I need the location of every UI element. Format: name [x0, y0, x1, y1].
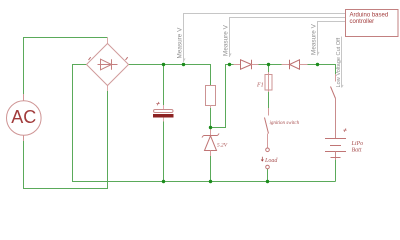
svg-text:Measure V: Measure V — [223, 24, 230, 56]
measure leader 3 — [318, 22, 346, 56]
node dot B (measure probe 1) — [182, 63, 185, 66]
svg-text:F1: F1 — [256, 83, 264, 89]
node dot E (battery rail probe) — [316, 63, 319, 66]
svg-text:Measure V: Measure V — [311, 23, 318, 55]
diode D1 — [234, 60, 259, 69]
svg-text:Load: Load — [264, 158, 278, 164]
node dot I (load bottom) — [266, 180, 269, 183]
svg-text:AC: AC — [11, 107, 36, 127]
wire fuse node stub — [268, 65, 270, 73]
wire AC top to bridge top — [24, 38, 108, 101]
wire capacitor column upper — [163, 65, 165, 106]
wire regulated rail between diode1 and fuse node — [256, 64, 282, 66]
node dot A (cap top) — [162, 63, 165, 66]
switch (ignition / load switch) — [265, 108, 269, 148]
svg-text:controller: controller — [350, 19, 375, 25]
node dot F (zener top node) — [209, 126, 212, 129]
node dot D (fuse node) — [267, 63, 270, 66]
node dot G (cap bottom) — [162, 180, 165, 183]
low voltage cutoff leader — [342, 37, 344, 88]
wire zener bottom to negative rail — [210, 155, 212, 182]
svg-text:LiPo: LiPo — [351, 141, 364, 147]
resistor — [206, 86, 216, 109]
battery LiPo — [325, 128, 347, 160]
wire AC bottom to bottom AC rail to bridge bottom — [24, 86, 108, 189]
wire fuse to switch — [268, 92, 270, 108]
zener diode 5.2V — [202, 128, 219, 157]
capacitor (polarized) — [153, 102, 174, 122]
wire positive rail from bridge right vertex to resistor top corner — [128, 65, 211, 86]
wire zener node up to regulated rail — [211, 65, 237, 128]
svg-text:Low Voltage Cut Off: Low Voltage Cut Off — [336, 37, 342, 87]
switch (low voltage cutoff, battery) — [331, 74, 336, 139]
svg-text:Arduino based: Arduino based — [350, 13, 389, 19]
bridge rectifier — [87, 38, 129, 92]
wire battery bottom to negative rail — [335, 160, 337, 182]
wire resistor bottom to zener node — [210, 107, 212, 128]
svg-text:ignition switch: ignition switch — [270, 121, 300, 126]
measure leader 2 — [230, 18, 346, 58]
svg-text:5.2V: 5.2V — [217, 143, 228, 149]
wire load bottom terminal to negative rail — [267, 169, 269, 182]
diode D2 (reversed) — [282, 60, 308, 69]
wire capacitor column lower — [163, 121, 165, 182]
fuse F1 — [265, 72, 272, 92]
node dot C (regulated rail probe) — [228, 63, 231, 66]
wire regulated rail from diode2 to battery switch corner — [304, 65, 336, 75]
load terminals — [266, 148, 270, 169]
wire bridge left vertex to negative rail — [73, 65, 336, 182]
AC source V1 — [7, 94, 42, 141]
Arduino controller box U1 — [346, 10, 399, 37]
svg-text:Measure V: Measure V — [177, 27, 184, 59]
measure leader 1 — [184, 14, 346, 63]
svg-text:Batt: Batt — [352, 148, 362, 154]
node dot H (zener bottom) — [209, 180, 212, 183]
